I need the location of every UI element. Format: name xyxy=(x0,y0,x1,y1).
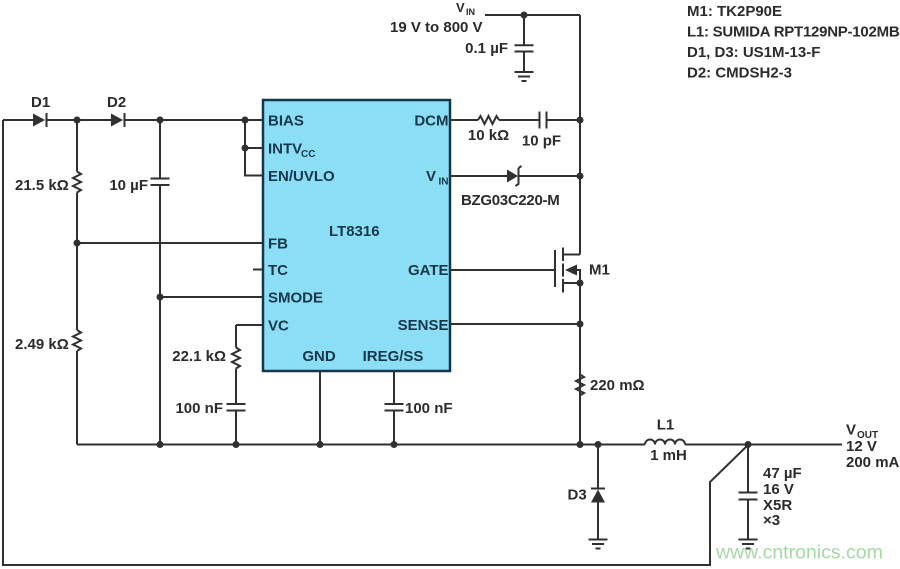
svg-text:CC: CC xyxy=(301,149,315,160)
svg-text:22.1 kΩ: 22.1 kΩ xyxy=(172,348,226,365)
svg-text:BZG03C220-M: BZG03C220-M xyxy=(461,192,559,209)
svg-text:V: V xyxy=(456,0,465,15)
svg-text:L1: SUMIDA RPT129NP-102MB: L1: SUMIDA RPT129NP-102MB xyxy=(687,24,900,41)
svg-text:1 mH: 1 mH xyxy=(650,447,687,464)
svg-text:IN: IN xyxy=(466,7,475,17)
svg-text:10 pF: 10 pF xyxy=(522,133,561,150)
svg-text:D1: D1 xyxy=(31,94,50,111)
svg-text:220 mΩ: 220 mΩ xyxy=(590,377,645,394)
svg-text:TC: TC xyxy=(268,262,288,279)
svg-text:10 kΩ: 10 kΩ xyxy=(468,127,509,144)
svg-text:INTV: INTV xyxy=(268,141,302,158)
svg-text:0.1 µF: 0.1 µF xyxy=(465,40,508,57)
svg-text:16 V: 16 V xyxy=(763,481,794,498)
svg-text:GND: GND xyxy=(302,348,336,365)
svg-text:D2: D2 xyxy=(107,94,126,111)
svg-text:D3: D3 xyxy=(568,487,587,504)
svg-text:FB: FB xyxy=(268,236,288,253)
svg-text:V: V xyxy=(426,168,436,185)
svg-text:M1: M1 xyxy=(589,262,610,279)
svg-text:200 mA: 200 mA xyxy=(846,454,900,471)
svg-text:IN: IN xyxy=(439,177,449,188)
svg-text:BIAS: BIAS xyxy=(268,113,304,130)
svg-text:SMODE: SMODE xyxy=(268,290,323,307)
svg-text:10 µF: 10 µF xyxy=(109,177,148,194)
svg-text:100 nF: 100 nF xyxy=(175,400,223,417)
svg-text:12 V: 12 V xyxy=(846,438,877,455)
svg-text:VC: VC xyxy=(268,318,289,335)
svg-text:L1: L1 xyxy=(657,417,675,434)
svg-text:47 µF: 47 µF xyxy=(763,465,802,482)
svg-text:LT8316: LT8316 xyxy=(329,223,380,240)
svg-text:IREG/SS: IREG/SS xyxy=(363,348,424,365)
svg-text:×3: ×3 xyxy=(763,512,780,529)
svg-text:V: V xyxy=(846,422,856,439)
svg-text:19 V to 800 V: 19 V to 800 V xyxy=(390,19,483,36)
svg-text:M1: TK2P90E: M1: TK2P90E xyxy=(687,3,782,20)
svg-text:DCM: DCM xyxy=(414,113,448,130)
svg-text:GATE: GATE xyxy=(408,262,449,279)
svg-text:100 nF: 100 nF xyxy=(405,400,453,417)
svg-text:SENSE: SENSE xyxy=(398,317,449,334)
svg-text:www.cntronics.com: www.cntronics.com xyxy=(715,542,883,564)
svg-text:2.49 kΩ: 2.49 kΩ xyxy=(15,336,69,353)
svg-text:EN/UVLO: EN/UVLO xyxy=(268,168,335,185)
svg-text:D2: CMDSH2-3: D2: CMDSH2-3 xyxy=(687,65,792,82)
svg-text:D1, D3: US1M-13-F: D1, D3: US1M-13-F xyxy=(687,44,820,61)
svg-text:21.5 kΩ: 21.5 kΩ xyxy=(15,177,69,194)
